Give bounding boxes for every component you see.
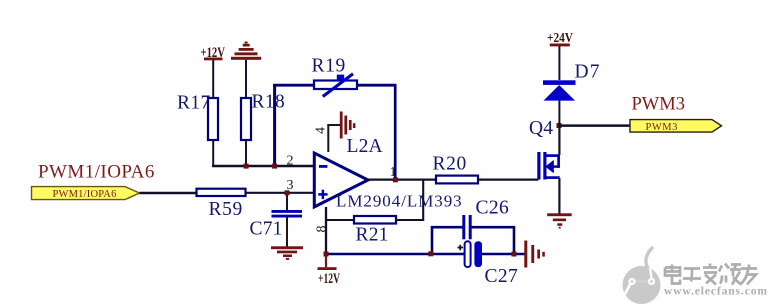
svg-text:R21: R21 (356, 225, 389, 246)
watermark logo circle (623, 248, 661, 304)
resistor R21 (354, 216, 396, 246)
wire feedback top right (356, 84, 397, 87)
svg-text:R17: R17 (177, 93, 211, 114)
svg-text:8: 8 (315, 226, 330, 233)
wire feedback left vertical (273, 84, 276, 167)
svg-text:PWM3: PWM3 (632, 94, 685, 114)
svg-text:LM2904/LM393: LM2904/LM393 (336, 192, 463, 211)
op-amp U=L2A (314, 136, 462, 211)
junction at Q4 drain / PWM3 node (557, 123, 562, 128)
wire R20 to gate (478, 178, 539, 180)
svg-text:D7: D7 (575, 62, 601, 83)
svg-text:C71: C71 (250, 219, 283, 240)
pin8 stub wire (325, 207, 327, 255)
svg-text:2: 2 (287, 154, 294, 169)
svg-text:C26: C26 (476, 198, 510, 219)
svg-text:4: 4 (314, 127, 329, 134)
earth ground under C71 (271, 246, 303, 260)
capacitor C27 polarized (458, 241, 519, 287)
port banner PWM3 (630, 120, 722, 133)
svg-text:R18: R18 (252, 92, 286, 113)
wire right vertical to output (394, 85, 397, 180)
C26 parallel loop (432, 227, 514, 254)
transistor Q4 nmos (529, 118, 560, 214)
svg-text:L2A: L2A (347, 136, 383, 157)
resistor R20 (433, 154, 479, 184)
svg-text:PWM3: PWM3 (646, 122, 678, 133)
earth ground under Q4 source (547, 213, 572, 228)
power +12V at pin8 (318, 254, 341, 287)
svg-text:www.elecfans.com: www.elecfans.com (664, 286, 768, 298)
wire pin3 (246, 192, 316, 194)
capacitor C26 (464, 198, 509, 240)
wire R21 right + up (396, 180, 423, 221)
wire R21 left (325, 219, 354, 221)
wire banner to R59 (140, 192, 198, 195)
power ground right-pointing after C27 (524, 241, 545, 268)
svg-text:PWM1/IOPA6: PWM1/IOPA6 (53, 189, 117, 200)
power +12V top-left (201, 45, 226, 98)
junction at R18 bottom (244, 164, 249, 169)
op-amp output wire (366, 178, 437, 180)
port banner PWM1/IOPA6 (32, 187, 140, 200)
svg-text:Q4: Q4 (529, 118, 553, 139)
svg-text:R20: R20 (433, 154, 467, 175)
wire to PWM3 banner (559, 124, 630, 127)
junction at pin8 +12V node (324, 252, 329, 257)
power +24V (547, 31, 573, 80)
junction at C26 branch right (512, 252, 517, 257)
resistor R59 (197, 189, 246, 220)
capacitor C71 (250, 193, 303, 247)
svg-text:R19: R19 (312, 55, 346, 76)
junction at feedback tap (272, 164, 277, 169)
power ground right-pointing at pin4 (340, 112, 356, 139)
wire feedback top left (273, 84, 315, 87)
+12V rail bottom (326, 253, 525, 256)
diode D7 (543, 62, 601, 127)
junction at C26 branch left (428, 251, 433, 256)
svg-text:PWM1/IOPA6: PWM1/IOPA6 (38, 162, 155, 183)
svg-text:R59: R59 (209, 199, 243, 220)
wire pin2 horizontal (212, 165, 315, 168)
watermark chinese text (666, 264, 758, 285)
pin4 stub wire (327, 125, 340, 152)
junction at C71 tap (285, 190, 290, 195)
power ground pyramid above R18 (231, 42, 261, 99)
junction at op-amp output node (393, 177, 398, 182)
svg-text:+12V: +12V (318, 271, 340, 287)
svg-text:C27: C27 (485, 266, 519, 287)
potentiometer R19 (312, 55, 358, 96)
resistor R18 (241, 92, 285, 167)
resistor R17 (177, 93, 218, 167)
